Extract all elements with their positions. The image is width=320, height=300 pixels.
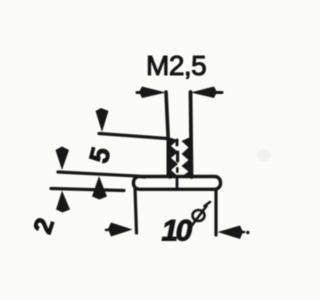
svg-text:10: 10 xyxy=(162,215,193,248)
dim 2 bottom arrow xyxy=(56,191,70,213)
thread start leader line xyxy=(99,134,167,139)
disc top leader line xyxy=(58,172,145,177)
stud right edge xyxy=(191,92,192,177)
disc body xyxy=(134,177,221,190)
svg-text:2: 2 xyxy=(27,214,60,237)
M2,5 right arrow xyxy=(191,87,218,99)
dim 10 left extension line xyxy=(135,188,137,233)
dim 5 bottom arrow xyxy=(92,176,107,200)
M2,5 left arrow xyxy=(139,87,166,99)
dim 10 right arrow xyxy=(218,226,244,240)
svg-text:M2,5: M2,5 xyxy=(146,50,206,81)
stud thread hatching xyxy=(167,137,192,177)
stud left edge xyxy=(166,92,170,177)
disc bottom leader line xyxy=(51,189,124,191)
dim 10 right extension line xyxy=(214,191,217,235)
svg-text:5: 5 xyxy=(84,144,117,166)
stud line through disc xyxy=(176,178,179,188)
dim 2 top arrow xyxy=(56,147,70,171)
dim 5 top arrow xyxy=(96,108,109,132)
dim 10 left arrow xyxy=(108,223,133,237)
diameter symbol xyxy=(192,202,211,226)
paper smudge xyxy=(257,149,271,161)
